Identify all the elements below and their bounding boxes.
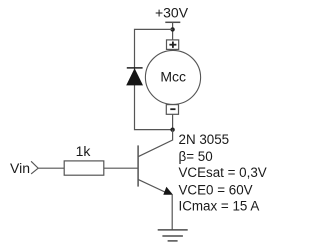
svg-text:β= 50: β= 50 xyxy=(179,149,213,164)
svg-text:Mcc: Mcc xyxy=(160,69,186,85)
svg-text:Vin: Vin xyxy=(10,160,30,176)
svg-text:1k: 1k xyxy=(76,143,92,159)
svg-text:+30V: +30V xyxy=(155,5,189,21)
svg-text:ICmax = 15 A: ICmax = 15 A xyxy=(179,199,260,214)
svg-text:2N 3055: 2N 3055 xyxy=(179,132,230,147)
svg-text:VCEsat = 0,3V: VCEsat = 0,3V xyxy=(179,165,267,180)
svg-text:VCE0 = 60V: VCE0 = 60V xyxy=(179,182,253,197)
